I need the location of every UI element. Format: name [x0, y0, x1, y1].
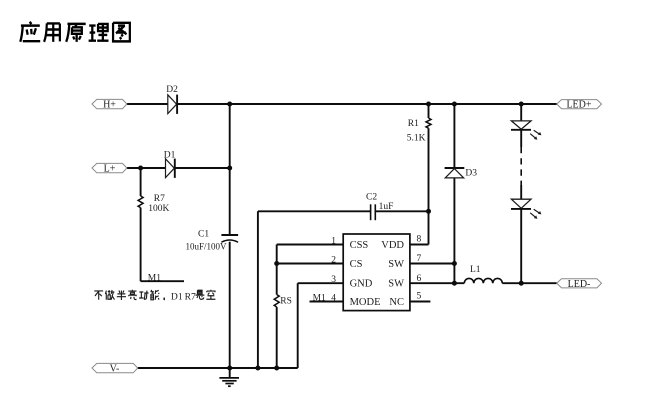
svg-text:R7: R7 [185, 292, 196, 303]
wire main column (H rail to ground) [229, 104, 231, 368]
resistor RS [274, 295, 292, 307]
svg-text:1uF: 1uF [379, 202, 394, 212]
junction node L row / main column [227, 166, 232, 171]
svg-text:4: 4 [331, 293, 336, 303]
diode D3 [445, 168, 478, 178]
svg-text:H+: H+ [103, 100, 116, 111]
wire LED column [520, 104, 522, 283]
char 亮 [128, 290, 136, 300]
wire L1 to LED- [502, 282, 557, 284]
junction node H rail / R1 column [426, 102, 431, 107]
junction node bottom / main column [227, 366, 232, 371]
char 功 [139, 291, 148, 300]
char 做 [105, 290, 114, 300]
LED LED2 [511, 199, 541, 219]
connector LED- [557, 279, 602, 290]
char 空 [206, 290, 215, 299]
svg-text:1: 1 [331, 236, 336, 246]
svg-text:VDD: VDD [381, 240, 404, 251]
svg-text:MODE: MODE [350, 297, 381, 308]
svg-text:LED-: LED- [568, 279, 591, 290]
svg-text:GND: GND [350, 279, 373, 290]
svg-text:M1: M1 [313, 293, 326, 303]
title 应用原理图 (drawn strokes) [20, 22, 130, 42]
connector V- [92, 363, 138, 374]
op-amp U1 (controller IC box) [343, 234, 410, 311]
char 应 [20, 22, 40, 42]
svg-text:5: 5 [417, 292, 422, 302]
capacitor C1 [186, 230, 239, 252]
svg-text:10uF/100V: 10uF/100V [186, 241, 228, 251]
svg-text:M1: M1 [148, 273, 161, 283]
junction node LED column / LED- row [519, 281, 524, 286]
svg-text:V-: V- [110, 364, 120, 375]
capacitor C2 [366, 193, 393, 221]
wire L+ row [127, 167, 230, 169]
junction node L+ / R7 [138, 166, 143, 171]
svg-text:CS: CS [350, 259, 363, 270]
wire pin8 VDD to R1 column [410, 211, 429, 244]
wire bottom rail (V- row) [138, 367, 298, 369]
char 不 [94, 291, 103, 300]
char 半 [117, 291, 126, 300]
wire pin6 SW to L1 [410, 282, 464, 284]
svg-text:L+: L+ [104, 164, 116, 175]
svg-text:8: 8 [417, 235, 422, 245]
junction node pin2 / RS column [274, 261, 279, 266]
junction node bottom / C2-left column [255, 366, 260, 371]
wire R1 column top [428, 104, 430, 211]
wire RS column (pin1/pin2 branch to ground) [277, 245, 344, 369]
ground [219, 368, 239, 386]
connector L+ [92, 163, 127, 174]
char 悬 [195, 290, 204, 299]
wire M1 stub (left) [141, 280, 184, 282]
wire pin3 column (GND to bottom rail) [298, 283, 344, 368]
junction node H rail / LED column [519, 102, 524, 107]
char 能 [151, 290, 159, 300]
wire H+ rail top (H+ to D2 to LED+) [127, 103, 557, 105]
connector LED+ [557, 100, 602, 111]
svg-text:R1: R1 [408, 119, 419, 129]
svg-text:NC: NC [389, 297, 404, 308]
junction node pin6 / D3 column [452, 281, 457, 286]
fullwidth comma [163, 298, 166, 300]
junction node pin7 / D3 column [452, 261, 457, 266]
wire D3 column [453, 104, 455, 283]
svg-text:2: 2 [331, 255, 336, 265]
inductor L1 [464, 265, 502, 283]
svg-text:C2: C2 [366, 193, 377, 203]
svg-text:L1: L1 [470, 265, 481, 275]
svg-text:D1: D1 [164, 150, 176, 160]
svg-text:RS: RS [280, 297, 292, 307]
junction node C2 / R1 column [426, 209, 431, 214]
junction node bottom / RS column [274, 366, 279, 371]
svg-text:3: 3 [331, 275, 336, 285]
resistor R7 [138, 194, 169, 214]
svg-text:CSS: CSS [350, 240, 369, 251]
junction node H rail / main column [227, 102, 232, 107]
svg-text:R7: R7 [154, 194, 165, 204]
svg-text:SW: SW [388, 259, 404, 270]
svg-text:LED+: LED+ [566, 100, 591, 111]
wire pin4 MODE stub [310, 301, 344, 303]
junction node H rail / D3 column [452, 102, 457, 107]
char 图 [113, 23, 130, 42]
wire C2 row [258, 211, 429, 368]
wire pin5 NC stub [410, 301, 431, 303]
connector H+ [92, 99, 127, 110]
svg-text:SW: SW [388, 279, 404, 290]
diode D1 [164, 150, 176, 178]
LED LED1 [511, 121, 541, 140]
svg-text:C1: C1 [198, 230, 209, 240]
svg-text:D3: D3 [465, 168, 477, 178]
resistor R1 [407, 118, 431, 144]
char 用 [44, 23, 60, 41]
wire R7 column [140, 168, 142, 281]
wire pin7 SW to D3 column [410, 263, 455, 265]
svg-text:D2: D2 [166, 85, 178, 95]
svg-text:5.1K: 5.1K [407, 134, 426, 144]
svg-text:D1: D1 [171, 292, 183, 303]
diode D2 [166, 85, 178, 114]
svg-text:100K: 100K [148, 204, 169, 214]
char 理 [89, 24, 109, 41]
char 原 [66, 24, 85, 42]
note 不做半亮功能，D1 R7悬空 (drawn strokes + latin text) [94, 290, 215, 300]
